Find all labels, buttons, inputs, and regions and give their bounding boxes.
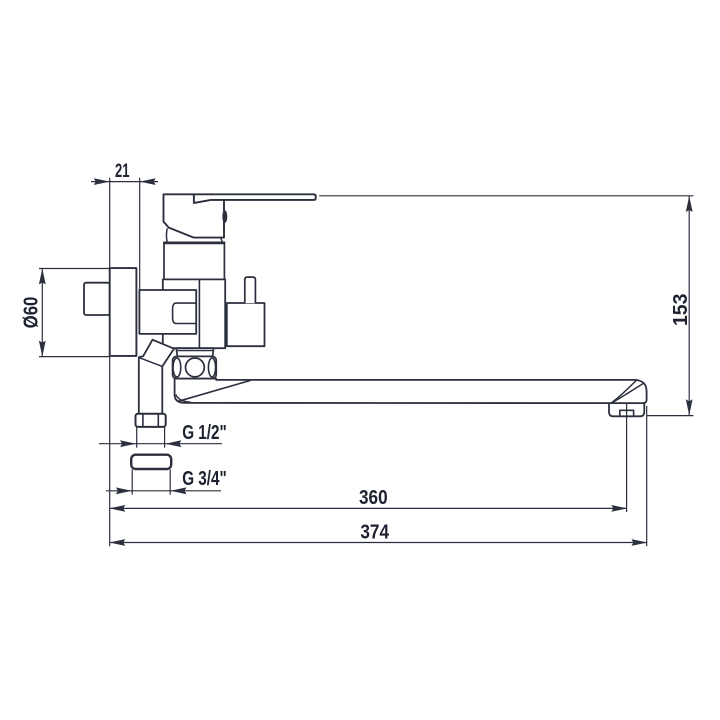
spout bar: [175, 379, 647, 404]
arrow G1/2 right: [165, 440, 181, 447]
Ø60 dimension line: [41, 269, 43, 357]
G 3/4 cap: [131, 455, 171, 469]
374 dimension line: [110, 542, 646, 544]
dome collar right edge: [221, 238, 223, 243]
spout tip crescent curve 1: [612, 380, 637, 403]
dome collar left arc: [165, 228, 168, 242]
aerator centre extension line: [626, 398, 628, 512]
diverter block: [227, 303, 265, 346]
arrow 360 left: [109, 505, 125, 512]
arrow 153 bottom: [686, 399, 693, 415]
svg-text:374: 374: [360, 521, 389, 543]
Ø60 extension line top: [39, 268, 110, 270]
arrow Ø60 bottom: [39, 341, 46, 357]
hex nut: [136, 414, 166, 427]
hex nut facets: [143, 414, 158, 426]
elbow (angled pipe section): [139, 340, 174, 414]
153 extension line bottom: [647, 415, 694, 417]
left block inner detail: [173, 303, 197, 323]
wall extension line: [109, 178, 111, 547]
handle lever: [194, 194, 316, 203]
faucet parts: [84, 194, 647, 469]
cartridge top thick edge: [163, 242, 225, 245]
153 extension line top: [319, 195, 693, 197]
spout tip extension line: [646, 406, 648, 546]
aerator housing: [609, 403, 644, 416]
elbow seam line: [140, 358, 163, 367]
lever slot dark mark: [222, 210, 227, 223]
diverter pipe: [245, 277, 256, 303]
wall flange: [110, 268, 137, 356]
dimension arrowheads: [39, 178, 693, 546]
body inner line: [198, 279, 200, 348]
21 dimension line tails: [91, 181, 158, 183]
body-back extension line (21 dim): [139, 178, 141, 290]
collar under body: [176, 348, 213, 356]
collar inner line: [177, 350, 214, 352]
swivel cylinder: [173, 356, 217, 378]
svg-text:G 3/4": G 3/4": [182, 468, 227, 490]
arrow 374 left: [109, 539, 125, 546]
svg-text:153: 153: [670, 294, 692, 327]
arrow 21 left: [94, 178, 110, 185]
svg-text:G 1/2": G 1/2": [182, 422, 227, 444]
arrow G3/4 right: [171, 487, 187, 494]
right dome ellipse: [208, 358, 215, 377]
arrow Ø60 top: [39, 269, 46, 285]
arrow 360 right: [611, 505, 627, 512]
ball joint circle: [186, 358, 205, 377]
Ø60 extension line bottom: [39, 356, 110, 358]
eccentric connector box: [84, 283, 110, 315]
arrow G1/2 left: [120, 440, 136, 447]
153 dimension line: [688, 196, 690, 415]
360 dimension line: [110, 507, 626, 509]
G 1/2 dimension line: [99, 443, 222, 445]
left dome ellipse: [173, 358, 181, 377]
spout beak inner curve: [176, 395, 191, 403]
svg-text:Ø60: Ø60: [21, 297, 43, 329]
thin dimension / extension lines: [39, 178, 694, 547]
spout diagonal fold: [179, 380, 251, 401]
aerator insert: [620, 410, 634, 416]
hex nut extension lines: [137, 428, 165, 448]
arrow G3/4 left: [116, 487, 132, 494]
svg-text:360: 360: [359, 487, 388, 509]
spout tip crescent curve 2: [612, 384, 644, 403]
handle base: [164, 194, 225, 237]
G 3/4 dimension line: [106, 490, 221, 492]
arrow 153 top: [686, 196, 693, 212]
left wall-side block: [139, 290, 196, 334]
svg-text:21: 21: [115, 161, 130, 182]
arrow 374 right: [631, 539, 647, 546]
cap extension lines: [132, 470, 170, 495]
body column: [163, 279, 225, 348]
arrow 21 right: [140, 178, 156, 185]
cartridge housing: [164, 242, 224, 279]
